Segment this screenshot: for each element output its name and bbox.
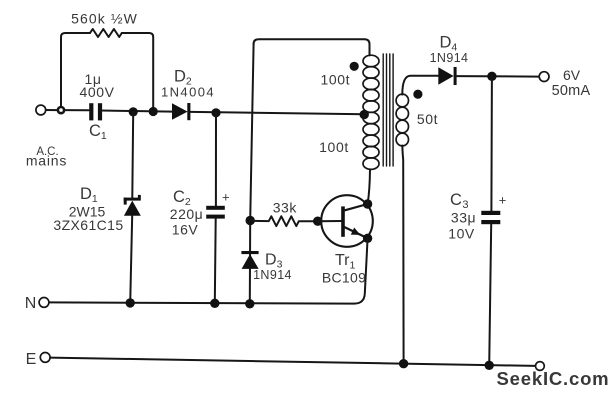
terminal N xyxy=(39,298,49,308)
node N-D3 dot xyxy=(245,299,254,308)
svg-text:50t: 50t xyxy=(417,111,438,127)
svg-text:3ZX61C15: 3ZX61C15 xyxy=(53,217,123,233)
wire feedback vertical (primary top to N) xyxy=(250,44,254,304)
node E-C3 dot xyxy=(485,361,494,370)
node 560k right dot xyxy=(149,107,158,116)
wire N rail xyxy=(49,302,354,303)
node E-secondary dot xyxy=(399,359,408,368)
svg-text:33μ: 33μ xyxy=(451,210,476,226)
svg-text:16V: 16V xyxy=(172,222,199,238)
wire rail C1-to-D2 xyxy=(101,111,173,112)
transformer secondary winding xyxy=(396,94,408,146)
svg-text:1N914: 1N914 xyxy=(253,268,292,282)
svg-text:220μ: 220μ xyxy=(170,206,203,222)
wire 560k loop left vertical xyxy=(61,33,90,107)
node transformer center tap dot xyxy=(360,110,369,119)
wire rail junction-to-C1 xyxy=(64,109,89,111)
wire D4 to output xyxy=(457,75,540,78)
wire collector to primary bottom xyxy=(368,169,370,204)
svg-text:N: N xyxy=(25,295,37,312)
wire 560k loop right vertical xyxy=(122,33,153,111)
node N-C2 dot xyxy=(210,299,219,308)
terminal E right xyxy=(536,362,545,371)
diode D4 xyxy=(438,67,456,85)
wire input to junction xyxy=(46,109,58,111)
node 33k tap dot xyxy=(246,216,255,225)
svg-text:+: + xyxy=(222,190,230,205)
node C3 tap dot xyxy=(487,72,496,81)
svg-text:560k ½W: 560k ½W xyxy=(71,11,138,27)
svg-text:1N914: 1N914 xyxy=(430,51,469,65)
svg-text:C1: C1 xyxy=(89,122,107,142)
wire emitter down to N rail xyxy=(354,238,368,303)
wire C3 branch upper xyxy=(490,76,493,211)
svg-text:33k: 33k xyxy=(273,200,298,216)
node secondary phase dot xyxy=(413,90,422,99)
node input junction ring xyxy=(58,107,64,113)
node base dot xyxy=(313,217,322,226)
svg-text:SeekIC.com: SeekIC.com xyxy=(497,368,610,389)
svg-text:mains: mains xyxy=(26,153,67,169)
resistor 33k xyxy=(250,216,318,226)
svg-text:100t: 100t xyxy=(319,139,349,155)
resistor R 560k zigzag xyxy=(90,29,122,37)
svg-text:BC109: BC109 xyxy=(322,270,366,286)
wire rail D2-to-centertap xyxy=(190,112,365,114)
capacitor C3 plates xyxy=(481,211,500,224)
svg-text:6V: 6V xyxy=(563,67,581,83)
wire E rail xyxy=(50,358,535,366)
diode D2 xyxy=(172,103,190,120)
wire C3 branch lower xyxy=(489,224,491,366)
transformer primary winding xyxy=(363,55,379,169)
terminal AC input xyxy=(36,105,46,115)
svg-text:10V: 10V xyxy=(448,226,475,242)
node D1 tap dot xyxy=(129,107,138,116)
svg-text:400V: 400V xyxy=(79,84,114,100)
transformer top wire xyxy=(254,39,370,55)
transformer core xyxy=(383,54,393,166)
node primary phase dot xyxy=(350,62,359,71)
transistor Q Tr1 xyxy=(318,195,373,247)
capacitor C2 plates xyxy=(206,206,225,219)
wire secondary bottom to E rail xyxy=(402,146,403,364)
terminal E xyxy=(40,353,50,363)
svg-text:C3: C3 xyxy=(450,191,469,211)
svg-text:+: + xyxy=(499,193,507,208)
wire D1 branch upper xyxy=(131,112,134,198)
node emitter dot xyxy=(363,234,372,243)
node collector dot xyxy=(363,199,372,208)
svg-text:D1: D1 xyxy=(80,185,98,205)
zener D1 xyxy=(124,195,141,216)
diode D3 xyxy=(241,251,258,269)
svg-text:50mA: 50mA xyxy=(552,83,591,99)
capacitor C1 plates xyxy=(89,103,102,120)
wire secondary top to D4 xyxy=(402,76,438,95)
svg-text:100t: 100t xyxy=(320,71,350,87)
wire D1 branch lower xyxy=(130,216,132,303)
node C2 tap dot xyxy=(211,108,220,117)
svg-text:E: E xyxy=(26,351,37,368)
svg-text:1N4004: 1N4004 xyxy=(161,85,215,100)
svg-text:C2: C2 xyxy=(173,188,191,208)
terminal output 6V xyxy=(539,72,549,82)
wire C2 branch upper xyxy=(215,113,217,206)
node N-D1 dot xyxy=(126,298,135,307)
wire C2 branch lower xyxy=(214,219,217,304)
